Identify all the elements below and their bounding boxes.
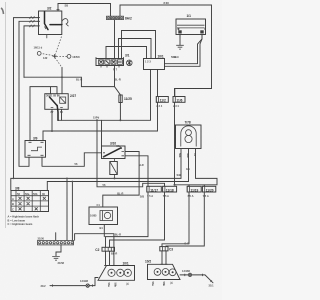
wire fuse 11/20 to C3 bbox=[166, 192, 204, 247]
node relay coil feed junction bbox=[61, 76, 63, 78]
wire battery to ground bbox=[179, 35, 181, 46]
node relay 87 junction bbox=[51, 130, 53, 132]
wire feed y77 to fuse 11/25 bbox=[24, 77, 120, 95]
wire 8A/2 to right edge down to fuse 11/6 bbox=[120, 5, 212, 97]
fuse 11/2 bbox=[156, 97, 168, 109]
ground 31 battery bbox=[174, 45, 184, 59]
fuse 11/20 bbox=[202, 186, 215, 198]
wire 3/10 pin2 to fuse riser bbox=[125, 156, 148, 184]
wire unit 10/85 output to C2 bbox=[103, 225, 105, 237]
wire 56 line from relay output to fuse 11/17 bbox=[97, 120, 165, 187]
wire fuse 11/19 to C3 bbox=[162, 192, 189, 247]
node fuse bus junction bbox=[174, 184, 176, 186]
wire bus1 from 3/2 to table bbox=[14, 18, 39, 179]
wire 8A/2 down to ignition switch bbox=[114, 20, 116, 59]
relay 3/2 bbox=[37, 7, 62, 39]
node ground drop L2 junction bbox=[72, 181, 74, 183]
switch table 3/8 bbox=[11, 186, 49, 211]
wire 3/9 up to relay pins bbox=[30, 87, 57, 141]
wire 3/9 bottom left pin bbox=[28, 157, 30, 166]
fuse 11/25 bbox=[119, 95, 132, 103]
wire fuse 11/17 to C2 bbox=[106, 192, 149, 247]
wire fuse feed bus L3 bbox=[175, 149, 218, 185]
wire band L2 bulb ground to table bbox=[47, 149, 188, 191]
wire ignition sw to 10/1 pin a bbox=[106, 47, 147, 59]
indicator bulb 7/78 bbox=[176, 121, 202, 158]
wire band L1 bulb ground to table bbox=[11, 149, 181, 191]
wire fuse 11/18 to C2 bbox=[110, 192, 165, 247]
resistor unit under 3/10 bbox=[110, 159, 144, 179]
dashed link cluster bbox=[34, 37, 81, 68]
fuse 11/6 bbox=[173, 97, 185, 109]
page corner artifact bbox=[1, 8, 4, 14]
wire battery plus feed b bbox=[165, 39, 203, 66]
wire 3/9 bottom right to 3/10 bbox=[42, 153, 102, 167]
unit 15/1 top bbox=[144, 55, 177, 70]
connector 8A/2 bbox=[107, 16, 132, 20]
wire ignition pin down bbox=[114, 66, 116, 87]
wire left lamp ground to strip bbox=[75, 234, 114, 266]
connector C3 bbox=[160, 247, 174, 252]
ground 31/58 bbox=[52, 256, 64, 265]
page border line left bbox=[5, 2, 7, 228]
battery 1/1 bbox=[176, 14, 206, 38]
wire ignition sw to 10/1 pin b bbox=[119, 39, 152, 59]
wire 11/6 riser bbox=[174, 102, 176, 185]
wire C2 to lamp bbox=[106, 251, 110, 265]
wire colour labels bbox=[30, 4, 191, 246]
scan noise overlay bbox=[0, 0, 222, 300]
wire 10/1 to relay output bus bbox=[58, 70, 151, 121]
headlamp 10/1 left bbox=[98, 262, 135, 288]
relay output thick stub bbox=[56, 106, 59, 121]
ground strip 31/50 bbox=[38, 237, 74, 245]
node bus1 to L1 junction bbox=[13, 178, 15, 180]
ground lead 31/2 with connector 13/198 bbox=[41, 278, 99, 289]
wire relay pin down short bbox=[61, 110, 63, 121]
unit 10/85 bbox=[89, 203, 118, 230]
coil symbol beside 3/2 bbox=[62, 19, 69, 27]
node ground drop L1 junction bbox=[66, 178, 68, 180]
wire bus3 from 3/2 to relay feed bbox=[24, 26, 39, 78]
switch 3/10 bbox=[102, 141, 126, 158]
wire strip to ground 31/58 bbox=[56, 245, 61, 256]
node 15Pd branch junction bbox=[96, 119, 98, 121]
ground lead right with connector 13/186 bbox=[180, 269, 214, 288]
headlamp 10/2 right bbox=[145, 259, 180, 286]
wire 3/10 high beam to unit 10/85 bbox=[103, 152, 139, 208]
relay 2/27 bbox=[45, 94, 77, 114]
connector C2 bbox=[95, 247, 117, 255]
wire y131 3/9 to fuse 11/2 bbox=[43, 102, 158, 140]
junction dots bbox=[13, 76, 176, 186]
switch 3/9 bbox=[25, 137, 46, 158]
fuse 11/19 bbox=[187, 186, 201, 198]
wire fuse 11/25 down bbox=[119, 103, 121, 121]
fuse 11/18 bbox=[163, 186, 177, 198]
wire L1 drop to ground strip bbox=[66, 178, 68, 240]
fuse 11/17 bbox=[147, 186, 162, 198]
wire diamond to relay coil bbox=[61, 67, 63, 93]
wire battery plus feed a bbox=[165, 35, 203, 64]
wire fuse top drops bbox=[148, 183, 204, 186]
node fuse 11/25 junction bbox=[119, 119, 121, 121]
wire relay pin85 down bbox=[51, 110, 53, 132]
connector circle 16/11 bbox=[37, 52, 41, 56]
ignition switch 3/1 bbox=[96, 54, 132, 68]
connector circle 16/5/8 bbox=[67, 55, 71, 59]
wire C3 to lamp bbox=[162, 251, 166, 264]
wire 10/1 to fuse 11/2 bbox=[158, 70, 175, 97]
wire 3/2 top to connector 8A/2 bbox=[58, 4, 111, 17]
wire L2 drop to ground strip bbox=[71, 182, 73, 241]
wire strip stub bbox=[55, 233, 57, 241]
wire branch to 3/10 bbox=[101, 120, 103, 146]
wire ignition sw to 10/1 pin c bbox=[122, 31, 156, 59]
wire bus2 from 3/2 to 3/9 bbox=[19, 21, 39, 166]
node resistor to L1 junction bbox=[114, 177, 116, 179]
